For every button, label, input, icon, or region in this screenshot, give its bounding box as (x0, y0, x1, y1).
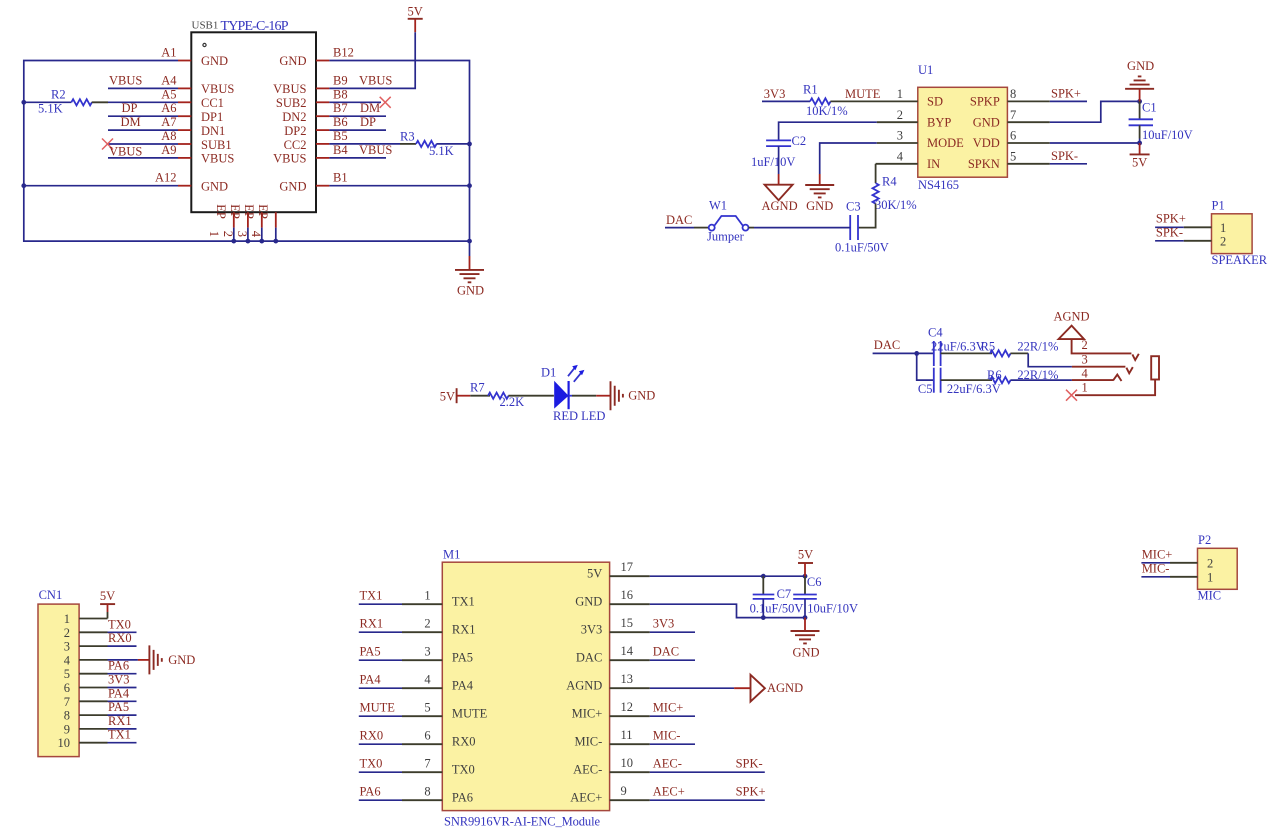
wire PA5 M1 (359, 659, 402, 661)
svg-text:B9: B9 (333, 73, 348, 87)
svg-text:B8: B8 (333, 87, 348, 101)
junction EP3 (259, 239, 264, 244)
wire RX0 CN1 (108, 645, 137, 647)
junction right trunk B1 (467, 183, 472, 188)
svg-text:AEC+: AEC+ (570, 791, 602, 805)
svg-text:7: 7 (1010, 108, 1016, 122)
svg-text:EP: EP (256, 204, 270, 219)
junction DAC split (914, 351, 919, 356)
svg-text:2: 2 (424, 616, 430, 630)
svg-text:C4: C4 (928, 326, 943, 340)
U1 pin 7 lead (1007, 121, 1049, 123)
wire C6 bottom (804, 599, 806, 618)
svg-text:EP: EP (242, 204, 256, 219)
wire R2 to CC1 pin (108, 101, 178, 103)
svg-text:PA5: PA5 (452, 651, 473, 665)
USB1 pin-1 dot (203, 43, 206, 46)
wire CC2 to R3 (329, 143, 400, 145)
svg-text:2.2K: 2.2K (500, 395, 525, 409)
USB1 pin B5 stub (316, 143, 329, 145)
svg-text:3: 3 (235, 231, 249, 237)
svg-text:DAC: DAC (666, 213, 692, 227)
svg-text:R2: R2 (51, 88, 66, 102)
svg-text:RX1: RX1 (360, 616, 384, 630)
USB1 pin A1 stub (178, 60, 191, 62)
USB1 pin B9 stub (316, 87, 329, 89)
junction 5V stem (803, 574, 808, 579)
power symbol AGND flag jack (1053, 310, 1089, 340)
M1 pin 16 lead (610, 603, 650, 605)
power symbol AGND arrow M1 (751, 675, 804, 702)
svg-text:RX0: RX0 (108, 631, 132, 645)
svg-text:2: 2 (1082, 338, 1088, 352)
USB1 pin A8 stub (178, 143, 191, 145)
svg-text:5V: 5V (1132, 156, 1147, 170)
svg-text:SPK-: SPK- (1156, 226, 1183, 240)
svg-text:8: 8 (1010, 87, 1016, 101)
LED D1 triangle and cathode (554, 381, 572, 409)
wire R4 to C3 (858, 204, 876, 228)
wire pin2 to C2 (779, 122, 877, 140)
svg-text:9: 9 (621, 784, 627, 798)
op-amp U1 NS4165 body (918, 87, 1008, 177)
svg-text:VDD: VDD (973, 136, 1000, 150)
M1 pin 13 lead (610, 687, 650, 689)
svg-text:PA6: PA6 (108, 659, 129, 673)
svg-text:A7: A7 (161, 115, 176, 129)
M1 pin 7 lead (402, 771, 442, 773)
W1 lead left (694, 227, 709, 229)
svg-text:A1: A1 (161, 46, 176, 60)
svg-text:GND: GND (279, 180, 306, 194)
CN1 pin 9 lead (79, 728, 107, 730)
junction left trunk CC1 (21, 100, 26, 105)
CN1 pin 6 lead (79, 687, 107, 689)
svg-text:SD: SD (927, 95, 943, 109)
wire SPK+ stub P1 (1155, 226, 1184, 228)
svg-text:VBUS: VBUS (273, 152, 306, 166)
svg-text:GND: GND (168, 653, 195, 667)
svg-text:EP: EP (228, 204, 242, 219)
svg-text:A6: A6 (161, 101, 176, 115)
wire D1 to GND (572, 395, 596, 397)
USB1 EP3 pin (235, 204, 262, 237)
svg-text:12: 12 (621, 700, 634, 714)
svg-text:C2: C2 (792, 134, 807, 148)
svg-text:BYP: BYP (927, 115, 951, 129)
svg-text:5: 5 (1010, 149, 1016, 163)
wire TX1 M1 (359, 603, 402, 605)
USB1 pin B6 stub (316, 129, 329, 131)
C1 top lead (1139, 101, 1141, 119)
wire B1 GND (329, 185, 469, 187)
C5 lead to R6 (941, 379, 992, 381)
junction C1 top (1137, 99, 1142, 104)
wire MIC- stub P2 (1141, 576, 1170, 578)
junction EP2 (246, 239, 251, 244)
USB1 pin A7 stub (178, 129, 191, 131)
U1 pin 4 lead (876, 163, 918, 165)
P2 pin 1 lead (1170, 576, 1198, 578)
U1 pin 1 lead (830, 100, 917, 102)
svg-text:RX1: RX1 (108, 714, 132, 728)
wire TX0 CN1 (108, 631, 137, 633)
CN1 pin 4 lead (79, 659, 107, 661)
svg-text:10uF/10V: 10uF/10V (1142, 128, 1193, 142)
svg-text:GND: GND (279, 54, 306, 68)
capacitor C4 (934, 341, 941, 366)
D1 light arrows (568, 365, 584, 382)
svg-text:B6: B6 (333, 115, 348, 129)
svg-text:AEC-: AEC- (653, 756, 682, 770)
ground symbol GND below pin3 (805, 185, 834, 213)
svg-text:B7: B7 (333, 101, 348, 115)
svg-text:10: 10 (621, 756, 634, 770)
CN1 pin 1 lead (79, 618, 107, 620)
wire A8 SUB1 (108, 143, 178, 145)
svg-text:4: 4 (1082, 367, 1089, 381)
svg-text:5.1K: 5.1K (429, 144, 454, 158)
svg-text:SUB2: SUB2 (276, 96, 307, 110)
USB1 pin A12 stub (178, 185, 191, 187)
svg-text:5V: 5V (798, 547, 813, 561)
ground symbol GND above C1 (flipped) (1125, 59, 1154, 101)
wire PA6 CN1 (108, 673, 137, 675)
svg-text:10K/1%: 10K/1% (806, 104, 848, 118)
resistor R5 (990, 350, 1011, 356)
svg-text:13: 13 (621, 672, 634, 686)
wire DAC stub M1 (650, 659, 695, 661)
USB1 pin A6 stub (178, 115, 191, 117)
M1 pin 4 lead (402, 687, 442, 689)
C6 top lead (804, 576, 806, 594)
junction right trunk R3 (467, 142, 472, 147)
svg-text:CN1: CN1 (39, 588, 63, 602)
svg-text:8: 8 (424, 784, 430, 798)
USB1 EP4 pin (249, 204, 276, 238)
M1 pin 1 lead (402, 603, 442, 605)
svg-text:VBUS: VBUS (109, 145, 142, 159)
svg-text:GND: GND (201, 54, 228, 68)
svg-text:3V3: 3V3 (108, 673, 130, 687)
svg-text:MUTE: MUTE (452, 707, 488, 721)
svg-text:DN2: DN2 (282, 110, 306, 124)
svg-text:MIC-: MIC- (575, 735, 603, 749)
resistor R4 (873, 183, 879, 204)
svg-text:1: 1 (1207, 570, 1213, 584)
svg-text:SPK-: SPK- (736, 756, 763, 770)
wire PA4 M1 (359, 687, 402, 689)
svg-text:10: 10 (58, 736, 71, 750)
svg-text:2: 2 (1207, 556, 1213, 570)
svg-text:RX0: RX0 (360, 728, 384, 742)
svg-text:4: 4 (897, 149, 904, 163)
svg-text:DP: DP (360, 115, 376, 129)
wire DAC to C4 (873, 352, 934, 354)
wire VBUS A4 (108, 87, 178, 89)
svg-text:2: 2 (897, 108, 903, 122)
M1 pin 17 lead (610, 575, 650, 577)
svg-text:U1: U1 (918, 63, 933, 77)
svg-text:C1: C1 (1142, 101, 1157, 115)
svg-text:C3: C3 (846, 200, 861, 214)
U1 pin 2 lead (877, 121, 918, 123)
AGND lead red (734, 687, 750, 689)
svg-text:DN1: DN1 (201, 124, 225, 138)
svg-text:DAC: DAC (874, 338, 900, 352)
svg-text:3: 3 (897, 129, 903, 143)
svg-text:TX0: TX0 (360, 756, 383, 770)
svg-text:0.1uF/50V: 0.1uF/50V (835, 241, 889, 255)
wire MIC- stub M1 (650, 743, 695, 745)
svg-text:5V: 5V (100, 589, 115, 603)
connector P1 body (1212, 214, 1253, 254)
svg-text:R3: R3 (400, 130, 415, 144)
wire PA6 M1 (359, 799, 402, 801)
P1 pin 1 lead (1184, 226, 1212, 228)
AGND flag triangle below C2 (765, 185, 793, 201)
svg-text:GND: GND (457, 284, 484, 298)
svg-text:11: 11 (621, 728, 633, 742)
svg-text:SPK+: SPK+ (1156, 212, 1186, 226)
C7 top lead (762, 576, 764, 594)
wire RX0 M1 (359, 743, 402, 745)
R5 lead right (1010, 352, 1028, 354)
resistor R1 (810, 98, 831, 104)
wire SPK- stub P1 (1155, 240, 1184, 242)
svg-text:MIC: MIC (1198, 589, 1222, 603)
capacitor C6 (793, 595, 817, 599)
svg-text:PA4: PA4 (452, 679, 474, 693)
junction left trunk A12 (21, 183, 26, 188)
svg-text:1: 1 (64, 612, 70, 626)
svg-text:VBUS: VBUS (359, 73, 392, 87)
svg-text:B12: B12 (333, 46, 354, 60)
svg-text:GND: GND (792, 646, 819, 660)
wire DM A7 (108, 129, 178, 131)
wire MIC+ stub M1 (650, 715, 695, 717)
wire GND left trunk (24, 61, 470, 242)
svg-text:AEC-: AEC- (573, 763, 602, 777)
svg-text:3: 3 (424, 644, 430, 658)
connector USB1 TYPE-C-16P body (191, 32, 316, 212)
wire 5V down to B9 (329, 32, 415, 88)
wire pin4 down to R4 (875, 164, 877, 183)
USB1 pin B7 stub (316, 115, 329, 117)
svg-text:B5: B5 (333, 129, 348, 143)
jack J1 pin3 line (1072, 367, 1133, 374)
wire RX1 CN1 (108, 728, 137, 730)
USB1 pin B12 stub (316, 60, 329, 62)
wire GND CN1 (108, 659, 150, 661)
svg-text:7: 7 (64, 695, 70, 709)
svg-text:SPKP: SPKP (970, 95, 1000, 109)
svg-text:MODE: MODE (927, 136, 964, 150)
svg-text:B1: B1 (333, 171, 348, 185)
wire pin7 GND to C1 (1050, 101, 1140, 122)
svg-text:4: 4 (424, 672, 431, 686)
USB1 pin A4 stub (178, 87, 191, 89)
P2 pin 2 lead (1170, 562, 1198, 564)
svg-text:3V3: 3V3 (764, 87, 786, 101)
M1 pin 2 lead (402, 631, 442, 633)
M1 pin 14 lead (610, 659, 650, 661)
svg-text:VBUS: VBUS (273, 82, 306, 96)
CN1 pin 7 lead (79, 700, 107, 702)
CN1 pin 10 lead (79, 742, 107, 744)
jack J1 sleeve (1151, 356, 1159, 379)
ground symbol GND below C6 (791, 618, 820, 660)
svg-text:DM: DM (121, 115, 141, 129)
capacitor C2 (766, 140, 791, 146)
wire R3 to right trunk (436, 143, 469, 145)
wire GND rail M1 (650, 604, 805, 617)
svg-text:A12: A12 (155, 171, 177, 185)
wire 5V to R7 (470, 395, 490, 397)
M1 pin 9 lead (610, 799, 650, 801)
USB1 EP1 pin (207, 204, 234, 237)
USB1 pin A9 stub (178, 157, 191, 159)
no-connect X on B8 (380, 97, 391, 108)
svg-text:3V3: 3V3 (581, 623, 603, 637)
svg-text:MUTE: MUTE (360, 700, 396, 714)
svg-text:3: 3 (1082, 353, 1088, 367)
svg-text:6: 6 (1010, 129, 1016, 143)
svg-text:VBUS: VBUS (201, 82, 234, 96)
svg-text:PA6: PA6 (452, 791, 473, 805)
GND lead at LED (596, 395, 610, 397)
svg-text:TX1: TX1 (360, 588, 383, 602)
power symbol 5V at LED row (440, 388, 471, 403)
svg-text:2: 2 (221, 231, 235, 237)
no-connect X on jack pin1 (1066, 390, 1077, 401)
wire pin6 VDD to C1 (1050, 142, 1140, 144)
wire MUTE M1 (359, 715, 402, 717)
svg-text:30K/1%: 30K/1% (875, 198, 917, 212)
M1 pin 12 lead (610, 715, 650, 717)
svg-text:GND: GND (201, 180, 228, 194)
wire 3V3 to R1 (762, 100, 810, 102)
svg-text:3V3: 3V3 (653, 616, 675, 630)
wire 5V rail M1 (650, 575, 805, 577)
svg-text:DAC: DAC (576, 651, 602, 665)
svg-text:22R/1%: 22R/1% (1017, 340, 1058, 354)
M1 pin 15 lead (610, 631, 650, 633)
svg-text:USB1: USB1 (192, 20, 219, 32)
resistor R6 (990, 377, 1011, 383)
power symbol 5V above USB (408, 5, 423, 33)
ground symbol GND below USB (455, 241, 484, 297)
connector P2 body (1198, 548, 1238, 589)
svg-text:AEC+: AEC+ (653, 784, 685, 798)
svg-text:5V: 5V (408, 5, 423, 19)
svg-text:RED LED: RED LED (553, 409, 605, 423)
svg-text:A4: A4 (161, 73, 177, 87)
svg-text:C7: C7 (777, 587, 792, 601)
wire B12 GND to right trunk (329, 61, 469, 242)
junction EP1 (231, 239, 236, 244)
wire SPK- stub pin5 (1050, 163, 1087, 165)
svg-text:PA6: PA6 (360, 784, 381, 798)
wire AGND M1 (650, 687, 734, 689)
connector CN1 body (38, 604, 79, 757)
wire R6 to jack pin4 (1010, 379, 1072, 381)
USB1 EP2 pin (221, 204, 248, 237)
svg-text:5V: 5V (587, 567, 602, 581)
wire R5 to jack pin3 (1028, 353, 1072, 366)
svg-text:0.1uF/50V: 0.1uF/50V (750, 601, 804, 615)
wire 3V3 stub M1 (650, 631, 695, 633)
svg-text:RX0: RX0 (452, 735, 476, 749)
svg-text:AGND: AGND (1053, 310, 1089, 324)
svg-text:22uF/6.3V: 22uF/6.3V (947, 382, 1001, 396)
svg-text:DP1: DP1 (201, 110, 223, 124)
svg-text:9: 9 (64, 722, 70, 736)
CN1 pin 8 lead (79, 714, 107, 716)
svg-text:NS4165: NS4165 (918, 178, 959, 192)
svg-text:P2: P2 (1198, 533, 1211, 547)
CN1 pin 2 lead (79, 631, 107, 633)
wire AEC- SPK- M1 (650, 771, 765, 773)
wire TX1 CN1 (108, 742, 137, 744)
U1 pin 8 lead (1007, 100, 1049, 102)
svg-text:DAC: DAC (653, 644, 679, 658)
svg-text:TX1: TX1 (108, 728, 131, 742)
power symbol 5V above C6 (798, 547, 813, 576)
wire DM B7 (329, 115, 386, 117)
svg-text:6: 6 (424, 728, 430, 742)
svg-text:MIC+: MIC+ (1142, 548, 1173, 562)
svg-text:PA4: PA4 (360, 672, 382, 686)
R2 lead dark (92, 101, 108, 103)
junction C7 top (761, 574, 766, 579)
svg-text:6: 6 (64, 681, 70, 695)
CN1 pin 3 lead (79, 645, 107, 647)
svg-text:1: 1 (897, 87, 903, 101)
wire MIC+ stub P2 (1141, 562, 1170, 564)
wire CC1 to R2 (24, 101, 72, 103)
svg-text:17: 17 (621, 560, 634, 574)
wire PA4 CN1 (108, 700, 137, 702)
U1 pin 3 lead (877, 142, 918, 144)
wire VBUS A9 (108, 157, 178, 159)
wire AEC+ SPK+ M1 (650, 799, 765, 801)
svg-text:EP: EP (214, 204, 228, 219)
svg-text:D1: D1 (541, 366, 556, 380)
wire VBUS B4 (329, 157, 386, 159)
capacitor C5 (934, 368, 941, 393)
svg-text:5: 5 (424, 700, 430, 714)
resistor R7 (488, 393, 509, 399)
svg-text:Jumper: Jumper (707, 230, 745, 244)
svg-text:10uF/10V: 10uF/10V (807, 601, 858, 615)
svg-text:R6: R6 (987, 368, 1002, 382)
U1 pin 6 lead (1007, 142, 1049, 144)
ground symbol GND right of D1 (rotated) (611, 381, 656, 410)
svg-text:3: 3 (64, 640, 70, 654)
USB1 pin B1 stub (316, 185, 329, 187)
junction EP4 (273, 239, 278, 244)
wire B8 SUB2 (329, 101, 381, 103)
svg-text:1: 1 (207, 231, 221, 237)
M1 pin 10 lead (610, 771, 650, 773)
jack J1 pin2 line (1072, 339, 1139, 360)
svg-text:GND: GND (575, 595, 602, 609)
USB1 pin B4 stub (316, 157, 329, 159)
wire PA5 CN1 (108, 714, 137, 716)
resistor R2 (71, 99, 92, 105)
svg-text:4: 4 (64, 653, 71, 667)
